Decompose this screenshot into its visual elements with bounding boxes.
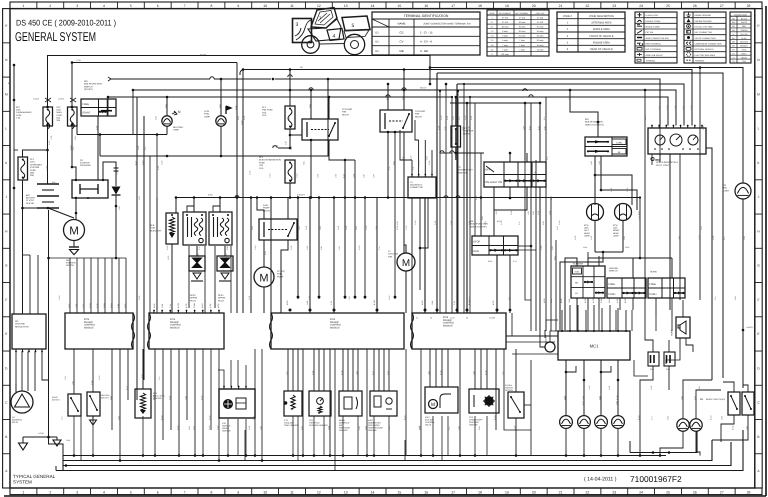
wire mid long 10 <box>364 198 366 300</box>
svg-text:M: M <box>259 273 268 285</box>
svg-text:1-RD: 1-RD <box>334 173 337 178</box>
wire left edge vertical to regulator <box>13 100 15 314</box>
svg-text:B-GN: B-GN <box>177 303 180 308</box>
wire MC1 left feeds verticals <box>511 313 513 336</box>
wire ECM4 top pin 1 <box>424 198 426 313</box>
svg-text:15: 15 <box>398 490 402 494</box>
svg-text:2-GN: 2-GN <box>450 317 455 320</box>
svg-text:LEFT: LEFT <box>584 229 590 232</box>
svg-text:FAN: FAN <box>388 255 393 258</box>
svg-text:COOLING: COOLING <box>342 108 352 111</box>
wire horn feed long <box>655 125 660 160</box>
svg-text:STOP: STOP <box>473 240 480 243</box>
svg-text:3-OR: 3-OR <box>48 140 51 145</box>
svg-text:RG: RG <box>15 320 19 323</box>
svg-text:2-OR: 2-OR <box>311 370 314 375</box>
svg-text:FRAME GROUND: FRAME GROUND <box>695 14 712 17</box>
svg-text:TEMP SENSOR: TEMP SENSOR <box>284 424 299 427</box>
svg-text:2-OR: 2-OR <box>513 425 516 430</box>
wire ECM3 extra drops <box>334 349 336 471</box>
svg-text:4-RD: 4-RD <box>124 303 127 308</box>
svg-text:3-OR: 3-OR <box>248 170 251 175</box>
svg-text:1-YL: 1-YL <box>60 416 63 420</box>
svg-text:B-WH: B-WH <box>439 370 442 375</box>
svg-text:M: M <box>69 226 79 238</box>
svg-text:5: 5 <box>352 23 355 29</box>
wire U1 link <box>420 240 428 248</box>
svg-text:F: F <box>5 298 7 302</box>
svg-text:2-YL: 2-YL <box>461 126 464 130</box>
svg-text:4-RD: 4-RD <box>560 298 563 303</box>
svg-text:6-BU: 6-BU <box>201 303 204 308</box>
svg-text:22: 22 <box>586 4 590 8</box>
svg-text:3-OR: 3-OR <box>240 120 243 125</box>
neutral lamp <box>162 116 172 126</box>
svg-text:30 amp: 30 amp <box>537 35 545 38</box>
svg-text:20: 20 <box>532 4 536 8</box>
svg-text:LOW: LOW <box>616 142 622 145</box>
svg-text:SWITCH: SWITCH <box>458 171 467 174</box>
svg-text:SPK1: SPK1 <box>218 294 224 297</box>
svg-text:2-YL: 2-YL <box>458 116 461 120</box>
svg-text:7 amp: 7 amp <box>519 39 525 42</box>
wire pf1 injection down to rail <box>289 183 291 198</box>
ground bus line 4 <box>56 430 743 471</box>
wire RF1 top <box>455 97 457 126</box>
spark plug SPK1 <box>217 256 233 271</box>
starter motor SM <box>64 220 85 241</box>
svg-text:HEAD: HEAD <box>584 232 590 235</box>
wire MG start feed <box>71 63 73 108</box>
svg-text:B-WH: B-WH <box>731 425 734 430</box>
wire ECM3 left bottom drops <box>254 349 256 456</box>
svg-text:4-BN: 4-BN <box>364 425 367 430</box>
svg-text:3-OR: 3-OR <box>138 295 141 300</box>
svg-text:2-YL: 2-YL <box>443 126 446 130</box>
svg-text:RELAY: RELAY <box>342 113 350 116</box>
svg-text:4-RD/GY: 4-RD/GY <box>297 194 306 197</box>
svg-text:LAMP: LAMP <box>204 115 210 118</box>
svg-text:22: 22 <box>586 490 590 494</box>
svg-text:2-YL: 2-YL <box>169 304 172 308</box>
svg-text:MG: MG <box>585 118 589 121</box>
svg-text:2-OR: 2-OR <box>90 380 93 385</box>
svg-text:18: 18 <box>478 4 482 8</box>
wire mid long 6 <box>318 198 320 300</box>
wire mid long 12 <box>394 132 396 299</box>
wire ECM1 top pins <box>69 258 71 313</box>
svg-text:57-310: 57-310 <box>502 21 509 24</box>
svg-text:3-OR: 3-OR <box>475 195 478 200</box>
svg-text:9: 9 <box>237 4 239 8</box>
svg-text:6-BU: 6-BU <box>396 220 399 225</box>
svg-text:ECM: ECM <box>443 316 448 319</box>
wire relay1 top feeds <box>310 90 312 119</box>
svg-text:6-BU: 6-BU <box>553 255 556 260</box>
svg-text:1: 1 <box>22 490 24 494</box>
svg-text:B-WH: B-WH <box>152 395 155 400</box>
svg-text:11: 11 <box>290 490 294 494</box>
svg-text:PUMP: PUMP <box>277 275 284 278</box>
fuel pump FP motor <box>254 267 274 287</box>
ground bus mid connections <box>119 436 121 461</box>
svg-text:2: 2 <box>49 490 51 494</box>
svg-text:P-WH: P-WH <box>600 297 603 303</box>
ground cluster left <box>48 430 50 437</box>
svg-text:4-GN: 4-GN <box>500 220 503 225</box>
svg-text:4-RD: 4-RD <box>537 210 540 215</box>
svg-text:I.D.: I.D. <box>375 30 380 34</box>
svg-text:3-OR: 3-OR <box>428 160 431 165</box>
svg-text:4-RD/B: 4-RD/B <box>58 98 65 101</box>
svg-text:4-RD: 4-RD <box>68 303 71 308</box>
svg-text:B-GN: B-GN <box>584 298 587 303</box>
table terminal identification <box>372 12 480 55</box>
svg-text:P-WH: P-WH <box>103 302 106 308</box>
svg-text:2-YL: 2-YL <box>453 301 456 305</box>
table connector list <box>487 10 549 56</box>
svg-text:PUSH: PUSH <box>608 293 615 296</box>
svg-text:710001967F2: 710001967F2 <box>630 474 682 484</box>
wire relay1 bottom out <box>310 140 312 198</box>
svg-text:3-OR: 3-OR <box>243 115 246 120</box>
svg-text:FLASH LIGHT: FLASH LIGHT <box>646 14 660 17</box>
svg-text:3: 3 <box>76 4 78 8</box>
svg-text:4: 4 <box>103 490 105 494</box>
wire top bus 4 <box>133 90 676 126</box>
svg-text:6-GN: 6-GN <box>208 415 211 420</box>
svg-text:7 amp: 7 amp <box>502 48 508 51</box>
fuse PF1 fan <box>285 106 295 129</box>
wire long vertical neutral rail <box>156 135 158 311</box>
svg-text:8: 8 <box>210 4 212 8</box>
svg-text:FREE: FREE <box>82 103 89 106</box>
svg-text:6-BU: 6-BU <box>551 245 554 250</box>
wire solenoid right to diode <box>103 162 116 180</box>
svg-text:10 A: 10 A <box>259 167 264 170</box>
junction dots top buses <box>272 78 275 81</box>
wire mid long 5 <box>309 198 311 314</box>
brake lamp BR2 <box>690 419 702 431</box>
svg-text:FAN: FAN <box>415 113 420 116</box>
voltage regulator RG box <box>12 314 46 349</box>
relay RF1 box <box>451 126 461 147</box>
wire ECM2 top pin stubs <box>153 311 155 314</box>
svg-text:M/F CONNECT: M/F CONNECT <box>499 12 512 15</box>
wire RG bottom pins <box>15 349 17 352</box>
switch table CC ignition <box>484 162 546 187</box>
svg-text:COOLING: COOLING <box>415 110 425 113</box>
svg-text:3-OR: 3-OR <box>305 225 308 230</box>
svg-text:B-GN: B-GN <box>373 300 376 305</box>
svg-text:10 A: 10 A <box>262 114 267 117</box>
svg-text:(2/2): (2/2) <box>57 109 62 112</box>
svg-text:1-WH: 1-WH <box>208 425 211 430</box>
svg-text:FUSE: FUSE <box>30 169 36 172</box>
svg-text:PILOT LIGHT: PILOT LIGHT <box>656 164 670 167</box>
svg-text:M: M <box>5 92 8 96</box>
wire vertical 645 to bus <box>644 90 646 310</box>
svg-text:RH: RH <box>575 282 579 285</box>
fuel level sensor FLS box <box>135 389 151 418</box>
hazard switch table <box>607 278 646 298</box>
wire mid long 4 <box>297 198 299 300</box>
svg-text:7 amp: 7 amp <box>502 44 508 47</box>
wire horn bottoms <box>655 298 657 316</box>
clutch switch box <box>68 394 81 416</box>
svg-text:12: 12 <box>317 4 321 8</box>
svg-text:57-310: 57-310 <box>537 21 544 24</box>
svg-text:3-OR: 3-OR <box>510 210 513 215</box>
svg-text:30 amp: 30 amp <box>537 30 545 33</box>
wire extra top-mid verticals <box>204 246 206 313</box>
svg-text:13: 13 <box>344 4 348 8</box>
svg-text:10: 10 <box>263 490 267 494</box>
wire top bus tail light <box>430 68 743 184</box>
svg-text:4-BN: 4-BN <box>720 415 723 420</box>
svg-text:6-BU: 6-BU <box>188 425 191 430</box>
svg-text:1-BK: 1-BK <box>66 439 71 442</box>
svg-text:(7A): (7A) <box>259 164 263 167</box>
svg-text:1-RD: 1-RD <box>306 245 309 250</box>
wire mid verticals fuel pump col <box>270 198 272 314</box>
cluster gauges <box>655 135 665 145</box>
ground bus line 1 <box>63 455 666 457</box>
svg-text:1: 1 <box>22 4 24 8</box>
wire MC1 bottom pins <box>565 360 567 416</box>
wire diag drop bundle <box>400 130 412 160</box>
ATV vehicle zone icon <box>344 34 364 54</box>
svg-text:SWITCH: SWITCH <box>609 270 618 273</box>
svg-text:FAN FUSE: FAN FUSE <box>262 109 273 112</box>
svg-text:COOLING: COOLING <box>388 253 398 256</box>
svg-text:21: 21 <box>559 490 563 494</box>
table legend symbols 2 <box>684 12 726 63</box>
svg-text:MB: MB <box>399 49 403 53</box>
svg-text:F.ADM/HAZARD: F.ADM/HAZARD <box>16 111 32 114</box>
crankshaft position sensor CPS box <box>469 389 499 413</box>
svg-text:57-310: 57-310 <box>519 16 526 19</box>
svg-text:57-310: 57-310 <box>537 16 544 19</box>
cooling fan relay 2 <box>380 110 412 132</box>
wire injector down <box>171 244 173 313</box>
svg-text:NAME: NAME <box>397 22 405 26</box>
wire connectors top <box>645 310 653 352</box>
svg-text:CV: CV <box>400 40 404 44</box>
svg-text:HI: HI <box>618 151 621 154</box>
svg-text:28: 28 <box>747 4 751 8</box>
wire left edge stub top <box>13 65 15 100</box>
junction dot fan wire <box>387 196 390 199</box>
wire ECM4 feed verticals from top buses <box>439 91 441 313</box>
svg-text:1-RD: 1-RD <box>352 173 355 178</box>
table zone description <box>557 12 625 52</box>
svg-text:4-RD: 4-RD <box>208 194 213 197</box>
svg-text:21: 21 <box>559 4 563 8</box>
wire ECM4 top pin 2 <box>436 73 438 313</box>
wire long vertical start rail <box>143 116 145 380</box>
svg-text:PLUG: PLUG <box>218 299 224 302</box>
wire top bus 6 <box>457 84 684 126</box>
svg-text:RING TERMINAL: RING TERMINAL <box>646 43 663 46</box>
wire U1 top pins <box>411 175 413 178</box>
svg-text:1 - CI - 15: 1 - CI - 15 <box>420 30 433 34</box>
svg-text:PARK: PARK <box>575 271 581 274</box>
wire vertical 551 <box>550 198 552 332</box>
svg-text:K-PK: K-PK <box>209 303 212 308</box>
rear lamp LH1 <box>595 416 608 429</box>
starter solenoid SS box <box>72 180 108 198</box>
svg-text:25: 25 <box>666 4 670 8</box>
svg-text:BS: BS <box>700 398 704 401</box>
svg-text:HEAD: HEAD <box>613 232 619 235</box>
wire sensor grounds to bus <box>92 424 94 426</box>
wire fuse2 down <box>71 126 73 167</box>
svg-text:LAMP: LAMP <box>173 129 179 132</box>
svg-text:4-GN: 4-GN <box>98 375 101 380</box>
svg-text:1-RD: 1-RD <box>650 385 653 390</box>
wire U1 bottom pins <box>411 198 413 313</box>
wire flasher feeds <box>565 258 577 330</box>
wire mid verticals bundle 2 <box>242 70 244 314</box>
fuse PF1 injection <box>285 160 295 183</box>
wire RF1 bottom to CC <box>456 147 484 153</box>
svg-text:CONTROL: CONTROL <box>330 324 342 327</box>
wire bottom verticals right block <box>530 360 532 456</box>
svg-text:20 amp: 20 amp <box>519 35 527 38</box>
svg-text:ENGINE: ENGINE <box>330 321 339 324</box>
svg-text:HORN: HORN <box>650 271 657 274</box>
svg-text:4: 4 <box>333 34 336 40</box>
svg-text:BUTT TERMINAL: BUTT TERMINAL <box>646 48 663 51</box>
wire top bus 12V main <box>48 56 431 108</box>
wire hazard bottoms <box>619 298 621 310</box>
wire top bus 2 <box>111 78 210 80</box>
wire battery negative to starter <box>47 207 50 210</box>
svg-text:11: 11 <box>290 4 294 8</box>
magneto CA <box>11 391 33 413</box>
wire left drop to regulator <box>22 208 24 250</box>
svg-text:1-RD: 1-RD <box>115 170 118 175</box>
svg-text:6-GN: 6-GN <box>200 395 203 400</box>
svg-text:4-BN: 4-BN <box>666 415 669 420</box>
svg-text:27: 27 <box>720 4 724 8</box>
svg-text:8: 8 <box>210 490 212 494</box>
svg-text:7: 7 <box>184 490 186 494</box>
svg-text:CONTROL: CONTROL <box>170 324 182 327</box>
wire long vertical accessories rail <box>136 97 138 400</box>
svg-text:2-YL: 2-YL <box>513 260 517 263</box>
table legend symbols 1 <box>635 12 677 63</box>
svg-text:STEERING AREA: STEERING AREA <box>591 22 611 25</box>
svg-text:3: 3 <box>296 22 299 28</box>
wire connectors bottom <box>640 366 653 456</box>
wire verticals cluster to MC1 <box>530 103 532 331</box>
svg-text:1-RD: 1-RD <box>590 235 593 240</box>
wire second left vertical <box>29 255 31 290</box>
svg-text:6-BU: 6-BU <box>355 225 358 230</box>
wire relay2 down to fan motor <box>387 132 389 198</box>
svg-text:RD-BK: RD-BK <box>200 54 207 57</box>
svg-text:6-BU: 6-BU <box>308 103 311 108</box>
wire cc feed bus <box>455 153 457 160</box>
svg-text:30A: 30A <box>30 174 34 177</box>
svg-text:ZONE-CONNECTOR NAME-TERMINAL: ZONE-CONNECTOR NAME-TERMINAL A/A <box>423 23 471 26</box>
label cluster CI <box>651 157 654 160</box>
wire long vertical battery rail <box>48 210 50 430</box>
svg-text:ECM: ECM <box>170 318 175 321</box>
svg-text:50: 50 <box>430 317 432 320</box>
svg-text:4-RD: 4-RD <box>421 300 424 305</box>
wire ECM1 pin bus from battery <box>49 257 127 259</box>
svg-text:ECM: ECM <box>330 318 335 321</box>
wire MC1 left horizontal feeds from ECM4 <box>506 335 558 337</box>
wire rail left riser <box>175 198 177 214</box>
junction dots extra on buses <box>236 196 239 199</box>
svg-text:2-YL: 2-YL <box>576 299 579 303</box>
svg-text:390 W: 390 W <box>12 421 18 424</box>
wire fan motor down <box>405 271 407 313</box>
idle air control valve IACV box <box>425 387 458 413</box>
engine control module ECM box 1 <box>65 313 133 349</box>
svg-text:4-GN: 4-GN <box>417 160 420 165</box>
svg-text:6-BU: 6-BU <box>302 160 305 165</box>
svg-text:4-GN: 4-GN <box>698 235 701 240</box>
svg-text:MULTIFUNCTION: MULTIFUNCTION <box>84 83 102 86</box>
wire RG top pins <box>22 250 24 314</box>
svg-text:OPTIONAL MODULE: OPTIONAL MODULE <box>695 48 715 51</box>
wire ECM3 bottom pins CTS <box>287 349 289 391</box>
wire CC out to MS <box>493 210 495 236</box>
svg-text:TAN: TAN <box>742 60 746 63</box>
svg-text:FREE: FREE <box>649 283 656 286</box>
wire right area risers <box>634 360 648 376</box>
svg-text:ZONE #: ZONE # <box>563 15 573 18</box>
svg-text:6 amp: 6 amp <box>502 30 508 33</box>
ground bus extra dots <box>73 454 76 457</box>
svg-text:TERMINAL IDENTIFICATION: TERMINAL IDENTIFICATION <box>404 14 449 18</box>
svg-text:1-BK: 1-BK <box>625 246 630 249</box>
wire extra verticals coils area <box>156 198 158 314</box>
svg-text:STARTER: STARTER <box>66 262 76 265</box>
svg-text:7 amp: 7 amp <box>519 48 525 51</box>
wire ECM3 top pin dots <box>289 309 292 312</box>
svg-text:6 amp: 6 amp <box>502 35 508 38</box>
svg-text:7: 7 <box>184 4 186 8</box>
ground bus line 3 <box>63 442 731 466</box>
svg-text:7 amp: 7 amp <box>519 44 525 47</box>
svg-text:2: 2 <box>311 33 313 37</box>
wire coil feeds <box>193 198 195 213</box>
wire pump relay feeds <box>257 198 264 220</box>
svg-text:4-BN: 4-BN <box>252 415 255 420</box>
wire mid long 8 <box>344 160 346 299</box>
wire hazard feeds <box>588 257 672 259</box>
svg-text:4-BN: 4-BN <box>615 400 618 405</box>
svg-text:P-WH: P-WH <box>193 302 196 308</box>
wire MC1 top pin verticals <box>561 310 563 331</box>
svg-text:2-YL: 2-YL <box>518 221 521 225</box>
ground bus left risers <box>62 456 64 471</box>
svg-text:4-GN: 4-GN <box>358 245 361 250</box>
svg-text:SPK2: SPK2 <box>190 294 196 297</box>
svg-text:6-BU: 6-BU <box>734 295 737 300</box>
svg-text:4-RD: 4-RD <box>624 298 627 303</box>
svg-text:CONTROL: CONTROL <box>84 324 96 327</box>
svg-text:1-RD: 1-RD <box>450 220 453 225</box>
svg-text:14: 14 <box>371 4 375 8</box>
svg-text:1-WH: 1-WH <box>295 173 298 178</box>
